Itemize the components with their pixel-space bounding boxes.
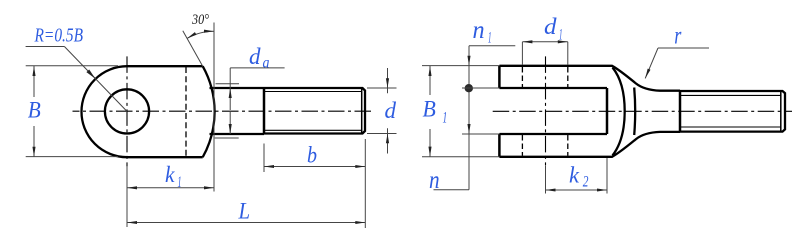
extension y=134 [462,133,499,135]
dimension b line [264,166,365,168]
dimension b extension left [263,144,265,173]
B1 extension bottom [422,156,499,158]
n arrow [468,120,470,134]
svg-text:r: r [674,22,681,49]
n leader bottom [434,189,470,191]
extension y=88 [462,87,499,89]
thread root lines (right view) [680,94,781,96]
dimension d1 line [522,41,567,43]
slot top edge [499,87,607,89]
thread root line bottom [264,129,362,131]
dimension B1 line [429,66,431,95]
svg-text:2: 2 [583,174,589,191]
hole centerline vertical [545,56,547,165]
svg-text:1: 1 [488,29,492,46]
thread start line [263,88,266,134]
leader r underline [658,47,709,49]
dimension B extension bottom [26,156,118,158]
fork left edge top prong [498,66,501,88]
svg-text:k: k [569,163,580,189]
centerline horizontal (fork axis) [493,110,792,112]
svg-text:B: B [423,97,436,123]
leader r slant [645,48,658,78]
dimension d extension top [367,87,397,89]
svg-text:1: 1 [178,174,182,191]
k2 extension (hole center) [545,166,547,194]
svg-text:a: a [263,55,270,72]
hidden hole lines [521,67,523,87]
svg-text:d: d [385,98,397,124]
thread start line (right view) [679,91,682,132]
d1 extension lines [521,42,523,65]
leader R=0.5B [26,46,65,48]
svg-text:n: n [473,17,485,44]
svg-text:k: k [165,162,175,188]
dimension B extension top [26,65,118,67]
k1 extension (eye center) [126,166,128,227]
svg-text:1: 1 [443,110,448,127]
svg-text:1: 1 [559,26,563,43]
dimension d_a leader line [230,67,284,69]
neck silhouette line [634,88,635,136]
dimension d_a line (arrows) [229,68,231,88]
n1 leader top [469,45,515,47]
thread chamfer line (right view) [780,91,782,131]
thread outline [264,88,365,134]
svg-text:30°: 30° [191,12,209,28]
dimension d extension bottom [367,133,397,135]
thread chamfer line [361,88,363,133]
fork outline bottom [499,132,680,157]
shank bottom edge [210,133,265,135]
shank top edge [210,87,265,89]
datum dot [465,84,473,92]
svg-text:b: b [307,143,317,169]
slot end arc [613,68,625,156]
30 deg extension vertical + k1/d_a extension [213,23,215,192]
dimension k2 line [546,189,608,191]
fork outline top [499,66,680,91]
dimension B line [33,66,35,97]
svg-text:n: n [429,167,440,194]
dimension L line [127,222,365,224]
thread root line top [264,91,362,93]
svg-text:R=0.5B: R=0.5B [34,25,83,46]
eye head right arc (30deg chamfer end) [203,66,215,157]
n1 / n vertical line [468,46,470,190]
centerline horizontal (eye axis) [73,110,374,112]
thread outline (right view) [680,91,785,132]
d_a top stub [216,83,240,85]
eye head outline [82,66,203,157]
d_a bottom stub [215,137,239,139]
n1 arrow [468,50,470,66]
fork left edge bottom prong [498,134,501,157]
svg-text:B: B [28,98,41,124]
eye hole [105,89,149,133]
dimension k1 line [127,187,214,189]
slot end line [606,88,609,134]
centerline vertical (eye center) [126,56,128,166]
B1 extension top [422,65,499,67]
slot bottom edge [499,133,607,135]
dimension b extension right (shared with L) [364,139,366,228]
svg-text:d: d [249,44,261,70]
svg-text:d: d [544,14,557,40]
dimension d arrows (outside) [387,68,389,93]
hidden line (boss edge) [185,67,187,156]
30 deg extension slant [183,31,203,66]
30 deg angle arc [187,31,214,38]
k2 extension (slot end) [606,158,608,194]
svg-text:L: L [238,199,250,225]
